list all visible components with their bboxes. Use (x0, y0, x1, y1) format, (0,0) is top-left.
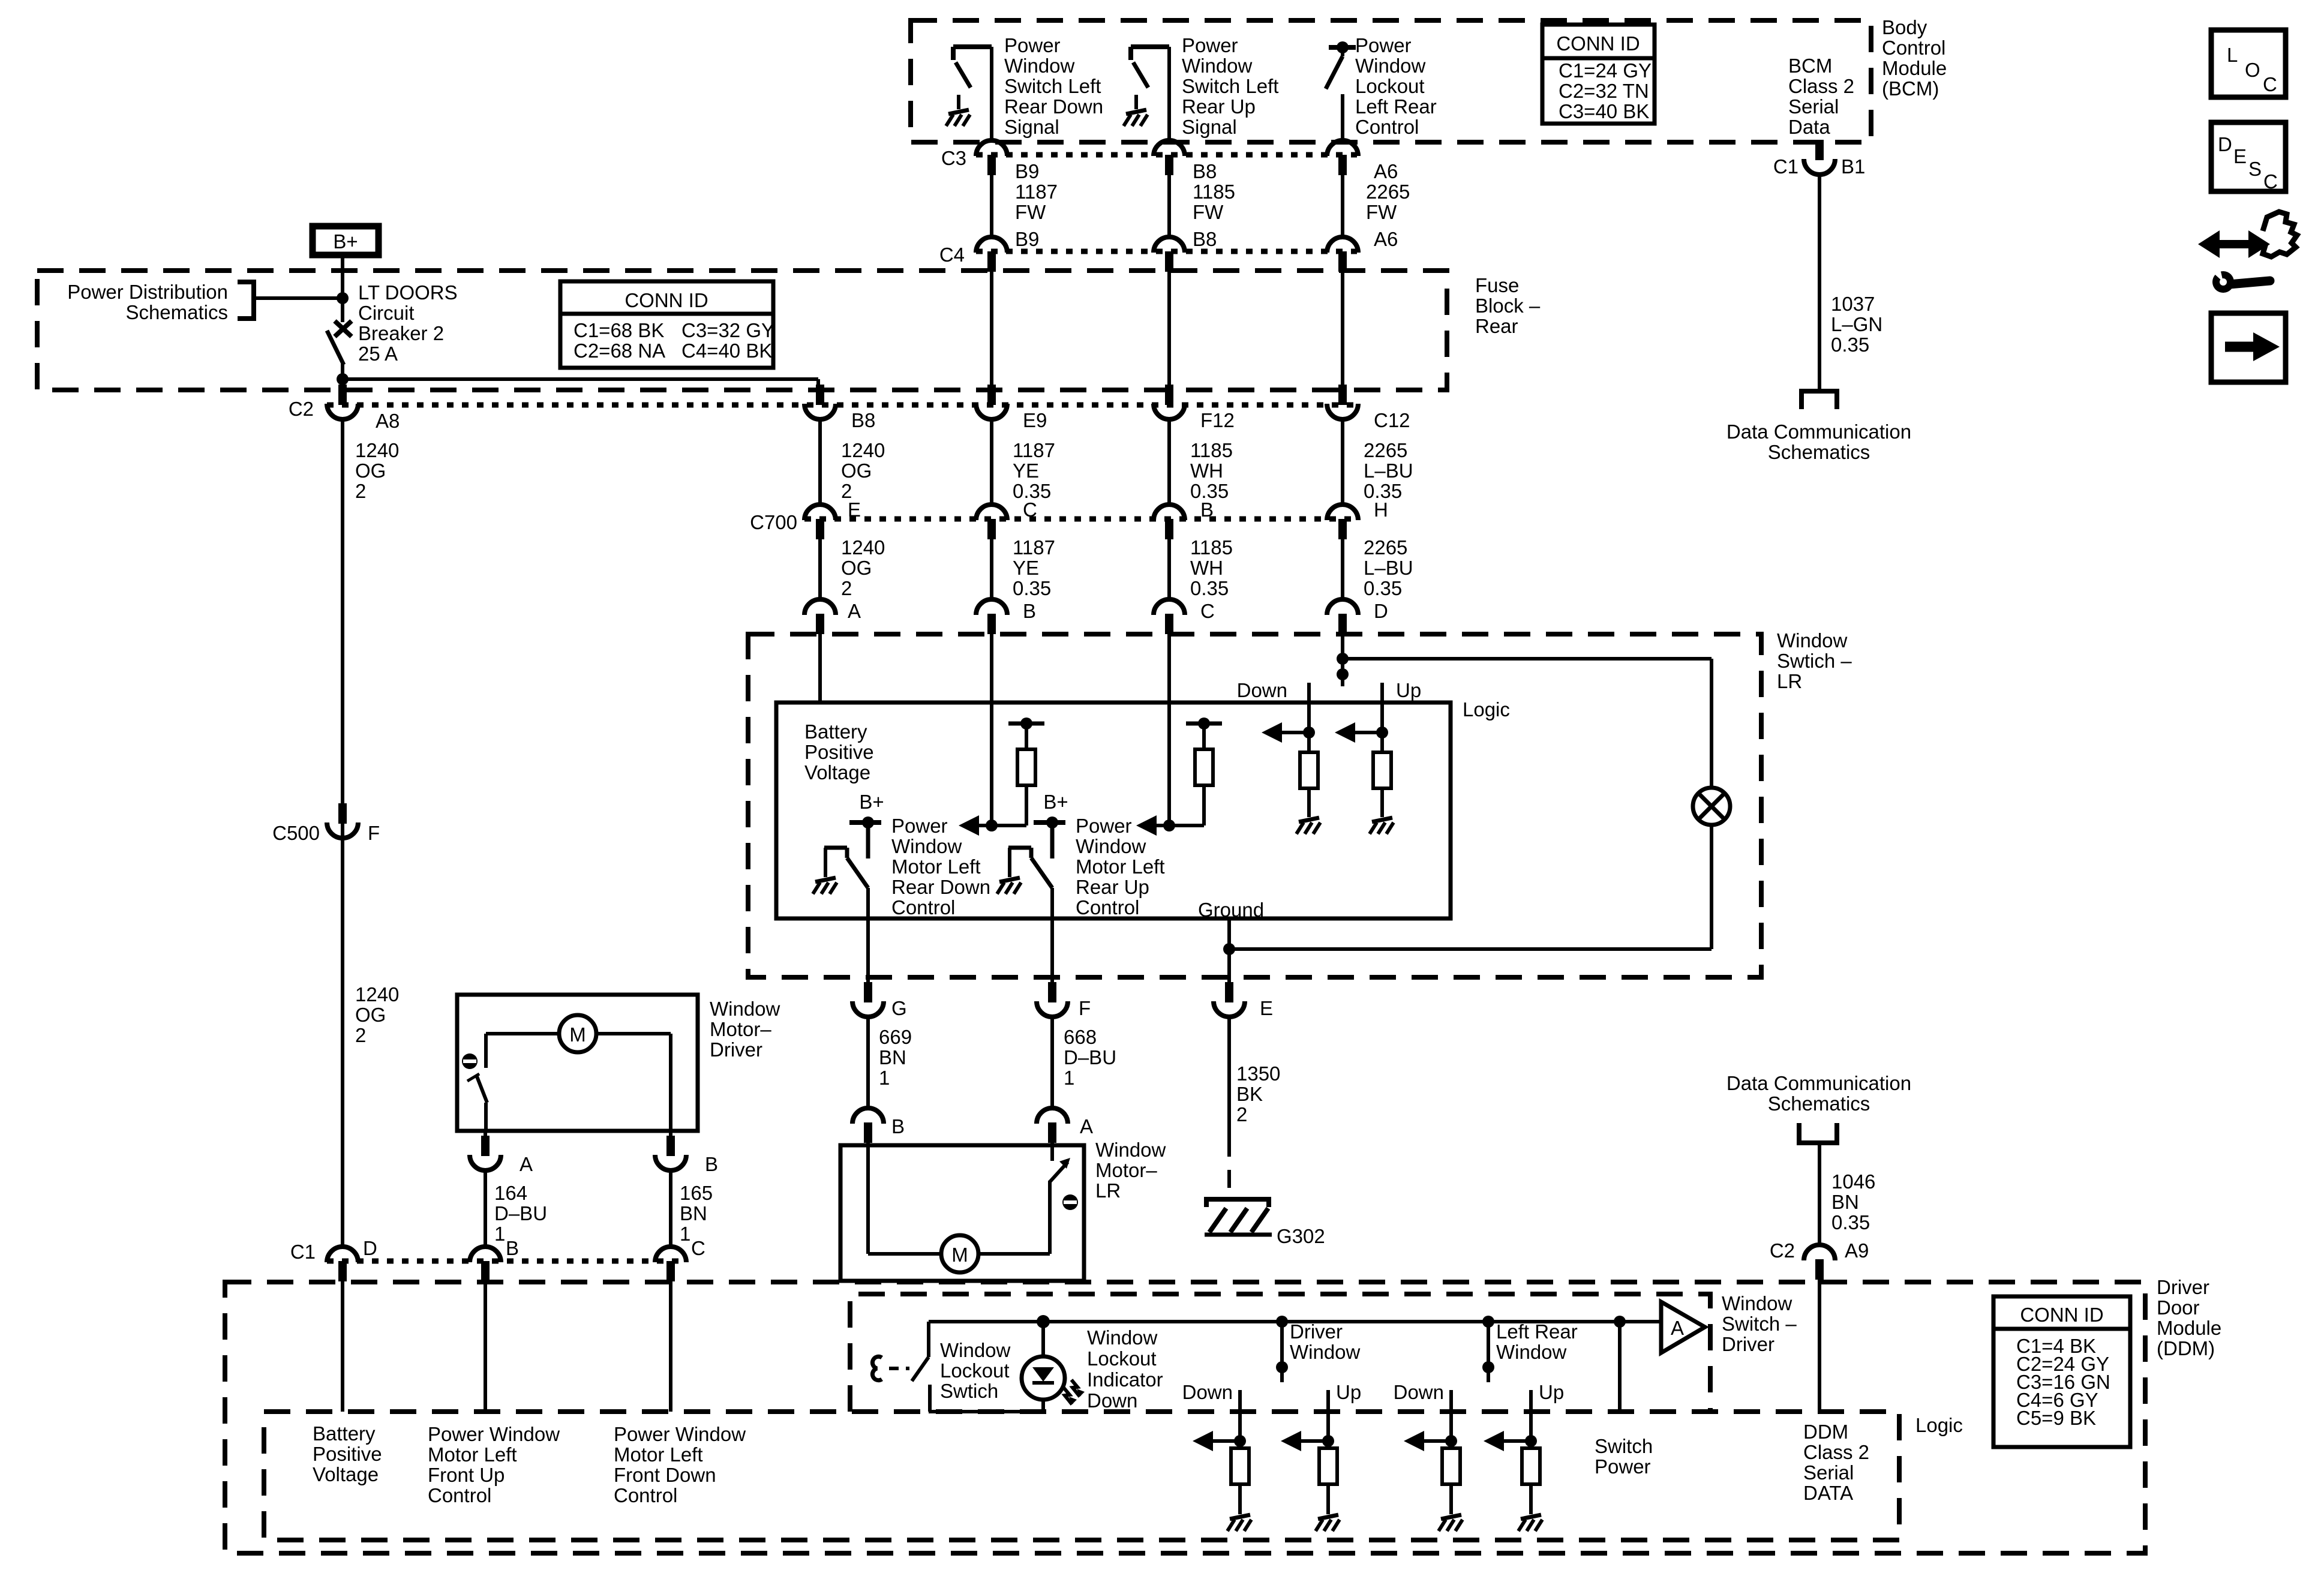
svg-text:Data: Data (1788, 116, 1830, 138)
svg-text:1185: 1185 (1190, 536, 1233, 559)
svg-text:E: E (848, 499, 861, 521)
svg-text:164: 164 (494, 1182, 527, 1204)
svg-text:A6: A6 (1374, 160, 1398, 182)
svg-text:Lockout: Lockout (940, 1359, 1010, 1382)
svg-text:DDM: DDM (1803, 1421, 1848, 1443)
svg-text:Swtich: Swtich (940, 1380, 998, 1402)
svg-text:Rear: Rear (1475, 315, 1518, 337)
svg-text:Window: Window (1290, 1341, 1361, 1363)
svg-text:FW: FW (1193, 201, 1224, 223)
svg-text:Motor Left: Motor Left (428, 1443, 517, 1466)
svg-text:B8: B8 (1193, 160, 1217, 182)
svg-text:M: M (569, 1023, 586, 1046)
svg-text:Control: Control (891, 896, 955, 918)
svg-text:1: 1 (680, 1223, 690, 1245)
svg-text:Circuit: Circuit (358, 302, 415, 324)
svg-text:B: B (1023, 600, 1036, 622)
svg-text:Rear Down: Rear Down (1004, 95, 1103, 118)
svg-text:Block –: Block – (1475, 295, 1541, 317)
svg-text:Data Communication: Data Communication (1727, 1072, 1911, 1094)
svg-text:Signal: Signal (1182, 116, 1237, 138)
svg-text:Motor Left: Motor Left (1076, 855, 1165, 878)
svg-text:Schematics: Schematics (125, 301, 228, 323)
svg-text:Power: Power (1595, 1455, 1651, 1478)
svg-text:C: C (1200, 600, 1215, 622)
svg-text:Window: Window (1095, 1139, 1166, 1161)
svg-text:1: 1 (1064, 1067, 1074, 1089)
svg-text:Ground: Ground (1198, 899, 1264, 921)
svg-text:1046: 1046 (1831, 1170, 1875, 1193)
svg-text:C2=68 NA: C2=68 NA (574, 340, 665, 362)
svg-text:B+: B+ (859, 791, 884, 813)
svg-text:D: D (363, 1237, 377, 1259)
svg-text:Window: Window (1777, 629, 1848, 652)
svg-text:YE: YE (1013, 460, 1039, 482)
svg-text:Window: Window (710, 998, 780, 1020)
svg-text:Power Window: Power Window (614, 1423, 746, 1445)
svg-text:Module: Module (2157, 1317, 2221, 1339)
svg-text:Window: Window (1355, 55, 1426, 77)
svg-text:C3=40 BK: C3=40 BK (1559, 100, 1649, 122)
svg-text:C700: C700 (750, 511, 797, 533)
svg-text:668: 668 (1064, 1026, 1097, 1048)
svg-text:C5=9 BK: C5=9 BK (2016, 1407, 2096, 1429)
svg-text:Window: Window (1004, 55, 1075, 77)
svg-text:Power: Power (891, 815, 948, 837)
svg-text:DATA: DATA (1803, 1482, 1853, 1504)
svg-text:Control: Control (1076, 896, 1139, 918)
svg-text:CONN ID: CONN ID (624, 289, 708, 311)
svg-text:C4=40 BK: C4=40 BK (681, 340, 772, 362)
svg-text:BN: BN (680, 1202, 707, 1224)
svg-text:2: 2 (841, 577, 852, 599)
svg-text:OG: OG (355, 1004, 386, 1026)
svg-text:D–BU: D–BU (1064, 1046, 1116, 1068)
svg-text:0.35: 0.35 (1831, 334, 1869, 356)
svg-text:E9: E9 (1023, 409, 1047, 431)
svg-text:Indicator: Indicator (1087, 1368, 1163, 1391)
svg-text:M: M (951, 1244, 968, 1266)
svg-text:0.35: 0.35 (1190, 577, 1229, 599)
svg-text:Window: Window (1496, 1341, 1567, 1363)
svg-text:G302: G302 (1277, 1225, 1325, 1247)
svg-text:Battery: Battery (804, 721, 867, 743)
svg-text:Left Rear: Left Rear (1496, 1320, 1578, 1343)
svg-text:E: E (2233, 145, 2247, 167)
svg-text:C3: C3 (941, 147, 966, 169)
svg-text:C: C (2263, 73, 2277, 95)
svg-text:2265: 2265 (1366, 181, 1410, 203)
svg-text:Driver: Driver (2157, 1276, 2209, 1298)
svg-text:B9: B9 (1015, 160, 1039, 182)
svg-text:Body: Body (1882, 16, 1927, 38)
svg-text:Serial: Serial (1803, 1461, 1854, 1484)
svg-text:Power: Power (1182, 34, 1238, 56)
svg-text:Positive: Positive (313, 1443, 382, 1465)
svg-text:Control: Control (428, 1484, 491, 1506)
svg-text:BK: BK (1236, 1083, 1263, 1105)
svg-text:Rear Up: Rear Up (1182, 95, 1256, 118)
svg-text:WH: WH (1190, 557, 1223, 579)
svg-text:Rear Up: Rear Up (1076, 876, 1149, 898)
svg-text:Class 2: Class 2 (1788, 75, 1854, 97)
svg-text:G: G (891, 997, 907, 1019)
svg-text:Switch Left: Switch Left (1182, 75, 1278, 97)
svg-text:1185: 1185 (1193, 181, 1235, 203)
svg-text:C2: C2 (289, 398, 314, 420)
svg-text:1350: 1350 (1236, 1062, 1280, 1085)
svg-text:C1=24 GY: C1=24 GY (1559, 59, 1652, 82)
svg-text:Swtich –: Swtich – (1777, 650, 1852, 672)
svg-text:1240: 1240 (841, 536, 885, 559)
svg-text:1187: 1187 (1013, 536, 1055, 559)
svg-text:B+: B+ (1043, 791, 1068, 813)
svg-text:Control: Control (1355, 116, 1419, 138)
svg-text:LT DOORS: LT DOORS (358, 281, 458, 304)
svg-text:Switch –: Switch – (1722, 1313, 1797, 1335)
svg-text:2265: 2265 (1364, 536, 1407, 559)
svg-text:C2=32 TN: C2=32 TN (1559, 80, 1649, 102)
svg-text:YE: YE (1013, 557, 1039, 579)
svg-text:BCM: BCM (1788, 55, 1832, 77)
svg-text:C2: C2 (1770, 1239, 1795, 1262)
svg-text:Window: Window (940, 1339, 1011, 1361)
svg-text:B: B (1200, 499, 1214, 521)
svg-text:L: L (2227, 44, 2238, 66)
svg-text:C: C (691, 1237, 705, 1259)
svg-text:Motor–: Motor– (710, 1018, 771, 1040)
svg-text:L–BU: L–BU (1364, 460, 1413, 482)
svg-text:Down: Down (1394, 1381, 1444, 1403)
svg-text:Up: Up (1396, 679, 1421, 701)
svg-text:F: F (1079, 997, 1091, 1019)
svg-text:C500: C500 (272, 822, 320, 844)
svg-text:A6: A6 (1374, 228, 1398, 250)
svg-text:0.35: 0.35 (1013, 577, 1051, 599)
svg-text:WH: WH (1190, 460, 1223, 482)
svg-text:S: S (2248, 158, 2262, 180)
svg-text:BN: BN (879, 1046, 906, 1068)
svg-text:Switch: Switch (1595, 1435, 1653, 1457)
svg-text:Power: Power (1004, 34, 1061, 56)
svg-text:Rear Down: Rear Down (891, 876, 990, 898)
svg-text:Front Up: Front Up (428, 1464, 505, 1486)
svg-text:C4: C4 (939, 244, 965, 266)
svg-text:Up: Up (1539, 1381, 1564, 1403)
svg-text:Driver: Driver (1290, 1320, 1343, 1343)
svg-text:1: 1 (879, 1067, 890, 1089)
svg-text:L–GN: L–GN (1831, 313, 1882, 335)
svg-text:Down: Down (1182, 1381, 1233, 1403)
svg-text:Battery: Battery (313, 1422, 376, 1445)
svg-text:Motor–: Motor– (1095, 1159, 1157, 1181)
svg-text:A: A (848, 600, 861, 622)
svg-text:Power Window: Power Window (428, 1423, 560, 1445)
svg-text:CONN ID: CONN ID (2020, 1304, 2103, 1326)
svg-text:F12: F12 (1200, 409, 1235, 431)
svg-text:OG: OG (841, 557, 872, 579)
svg-text:Door: Door (2157, 1296, 2200, 1319)
svg-text:Fuse: Fuse (1475, 274, 1519, 296)
svg-text:Data Communication: Data Communication (1727, 421, 1911, 443)
svg-text:Motor Left: Motor Left (614, 1443, 703, 1466)
svg-text:Logic: Logic (1915, 1414, 1963, 1436)
svg-text:Window: Window (1087, 1326, 1158, 1349)
svg-text:B+: B+ (333, 230, 358, 253)
svg-text:Lockout: Lockout (1087, 1347, 1157, 1370)
svg-text:1: 1 (494, 1223, 505, 1245)
svg-text:Schematics: Schematics (1768, 441, 1870, 463)
svg-text:D–BU: D–BU (494, 1202, 547, 1224)
svg-text:E: E (1260, 997, 1273, 1019)
svg-text:Window: Window (891, 835, 962, 857)
svg-text:1240: 1240 (841, 439, 885, 461)
svg-text:(BCM): (BCM) (1882, 77, 1939, 100)
svg-text:OG: OG (355, 460, 386, 482)
svg-text:H: H (1374, 499, 1388, 521)
svg-text:0.35: 0.35 (1364, 577, 1402, 599)
svg-text:B8: B8 (851, 409, 875, 431)
svg-text:Control: Control (1882, 37, 1945, 59)
svg-text:B9: B9 (1015, 228, 1039, 250)
svg-text:Positive: Positive (804, 741, 874, 763)
svg-text:Window: Window (1076, 835, 1146, 857)
svg-text:Module: Module (1882, 57, 1947, 79)
svg-text:Voltage: Voltage (313, 1463, 379, 1485)
svg-text:A: A (520, 1153, 533, 1175)
svg-text:Front Down: Front Down (614, 1464, 716, 1486)
svg-text:L–BU: L–BU (1364, 557, 1413, 579)
svg-text:2: 2 (355, 480, 366, 502)
svg-text:Driver: Driver (1722, 1333, 1774, 1355)
svg-text:0.35: 0.35 (1831, 1211, 1870, 1233)
svg-text:Window: Window (1182, 55, 1253, 77)
svg-text:Breaker 2: Breaker 2 (358, 322, 444, 344)
svg-text:A8: A8 (376, 410, 400, 432)
svg-text:2265: 2265 (1364, 439, 1407, 461)
svg-text:Power: Power (1355, 34, 1412, 56)
svg-text:Power: Power (1076, 815, 1132, 837)
svg-text:FW: FW (1366, 201, 1397, 223)
svg-text:Logic: Logic (1463, 698, 1510, 721)
svg-text:Power Distribution: Power Distribution (67, 281, 228, 303)
svg-text:A: A (1080, 1115, 1093, 1137)
svg-text:165: 165 (680, 1182, 713, 1204)
svg-text:Voltage: Voltage (804, 761, 870, 784)
svg-text:Driver: Driver (710, 1038, 762, 1061)
svg-text:OG: OG (841, 460, 872, 482)
svg-text:C: C (1023, 499, 1037, 521)
svg-text:Window: Window (1722, 1292, 1792, 1314)
svg-text:Serial: Serial (1788, 95, 1839, 118)
svg-text:25 A: 25 A (358, 343, 398, 365)
svg-text:O: O (2245, 59, 2260, 81)
svg-text:2: 2 (1236, 1103, 1247, 1125)
svg-text:Left Rear: Left Rear (1355, 95, 1437, 118)
svg-text:2: 2 (355, 1024, 366, 1046)
svg-text:C1=68 BK: C1=68 BK (574, 319, 664, 341)
svg-text:B1: B1 (1841, 155, 1865, 178)
svg-text:Lockout: Lockout (1355, 75, 1425, 97)
svg-text:Class 2: Class 2 (1803, 1441, 1869, 1463)
svg-text:A: A (1671, 1317, 1684, 1339)
svg-text:1187: 1187 (1015, 181, 1058, 203)
svg-text:Down: Down (1237, 679, 1287, 701)
svg-text:1187: 1187 (1013, 439, 1055, 461)
svg-text:D: D (1374, 600, 1388, 622)
svg-text:1240: 1240 (355, 439, 399, 461)
svg-text:C1: C1 (290, 1241, 316, 1263)
svg-text:Control: Control (614, 1484, 677, 1506)
svg-text:F: F (368, 822, 380, 844)
svg-text:C3=32 GY: C3=32 GY (681, 319, 774, 341)
svg-text:LR: LR (1777, 670, 1802, 692)
svg-text:A9: A9 (1845, 1239, 1869, 1262)
svg-text:1037: 1037 (1831, 293, 1875, 315)
svg-text:B: B (506, 1237, 519, 1259)
svg-text:C1: C1 (1773, 155, 1798, 178)
svg-text:Schematics: Schematics (1768, 1092, 1870, 1115)
svg-text:B: B (705, 1153, 718, 1175)
svg-text:Up: Up (1336, 1381, 1361, 1403)
svg-text:FW: FW (1015, 201, 1046, 223)
svg-text:LR: LR (1095, 1179, 1121, 1202)
svg-text:Down: Down (1087, 1389, 1137, 1412)
svg-text:1240: 1240 (355, 983, 399, 1005)
svg-text:1185: 1185 (1190, 439, 1233, 461)
svg-text:669: 669 (879, 1026, 912, 1048)
svg-text:C: C (2263, 170, 2278, 193)
svg-text:C12: C12 (1374, 409, 1410, 431)
svg-text:Switch Left: Switch Left (1004, 75, 1101, 97)
svg-text:B: B (891, 1115, 905, 1137)
svg-text:Motor Left: Motor Left (891, 855, 981, 878)
svg-text:BN: BN (1831, 1191, 1859, 1213)
svg-text:Signal: Signal (1004, 116, 1059, 138)
svg-text:B8: B8 (1193, 228, 1217, 250)
svg-text:(DDM): (DDM) (2157, 1337, 2215, 1359)
svg-text:D: D (2218, 133, 2232, 155)
svg-text:CONN ID: CONN ID (1556, 32, 1640, 55)
